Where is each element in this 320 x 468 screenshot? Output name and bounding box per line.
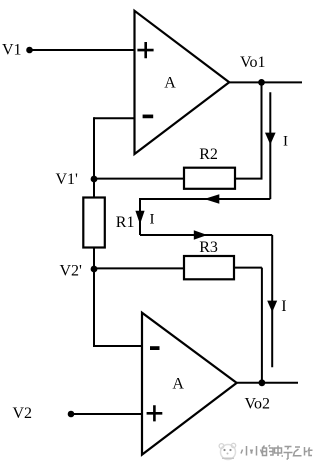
svg-text:Vo2: Vo2 — [245, 395, 271, 412]
current arrow right — [194, 230, 207, 239]
svg-text:I: I — [150, 212, 155, 228]
svg-text:R2: R2 — [199, 146, 218, 163]
wire R3 to Vo2 feedback — [234, 267, 262, 269]
resistor R3 — [184, 256, 234, 279]
current path segment below R2 — [140, 198, 270, 200]
current path segment from Vo1 down — [269, 92, 271, 199]
svg-text:A: A — [164, 75, 176, 92]
node Vo1 — [258, 79, 265, 86]
wire to U2 inverting input — [93, 345, 142, 347]
current arrow I down (bottom right) — [267, 301, 277, 313]
U1 plus input symbol — [137, 42, 153, 58]
svg-text:A: A — [172, 376, 184, 393]
current arrow left — [204, 194, 219, 203]
wire V2 to U2 non-inverting input — [73, 413, 143, 415]
current arrow I down (middle) — [135, 211, 144, 225]
wire U2 output Vo2 — [237, 382, 298, 384]
svg-text:R1: R1 — [116, 214, 135, 231]
resistor R1 — [83, 198, 105, 248]
svg-text:I: I — [283, 133, 288, 149]
terminal V2 — [68, 411, 75, 418]
wire U1 output Vo1 — [229, 81, 302, 83]
wire V2' to R3 — [94, 267, 184, 269]
node Vo2 — [259, 379, 266, 386]
svg-text:Vo1: Vo1 — [240, 54, 266, 71]
wire feedback down to Vo2 — [261, 268, 263, 383]
terminal V1 — [26, 47, 33, 54]
svg-text:V1: V1 — [2, 42, 22, 59]
node V2' — [91, 266, 98, 273]
wire inverting input down to node V1' — [93, 117, 95, 197]
wire R2 to node V1' — [94, 178, 184, 180]
watermark text 小小的电子之路 — [241, 445, 313, 459]
svg-text:I: I — [281, 298, 286, 315]
svg-text:V2: V2 — [13, 405, 33, 422]
wire V2' down — [93, 269, 95, 346]
wire feedback to R2 — [235, 178, 263, 180]
op-amp U1 — [135, 11, 230, 154]
U2 plus input symbol — [147, 405, 163, 421]
current arrow I down (top right) — [265, 133, 276, 145]
svg-text:V1': V1' — [56, 171, 79, 188]
wire R1 to node V2' — [93, 248, 95, 270]
wire V1 to op-amp U1 non-inverting input — [31, 49, 135, 51]
watermark logo icon — [219, 443, 236, 459]
current path segment middle down — [139, 198, 141, 235]
resistor R2 — [184, 168, 235, 189]
op-amp U2 — [142, 313, 237, 455]
current path segment down to Vo2 — [271, 235, 273, 367]
current path segment above R3 — [140, 234, 272, 236]
svg-text:V2': V2' — [60, 263, 83, 280]
U2 minus input symbol — [150, 346, 160, 350]
wire U1 inverting input — [94, 117, 135, 119]
wire Vo1 feedback down — [261, 82, 263, 178]
svg-text:R3: R3 — [199, 239, 218, 256]
node V1' — [91, 176, 98, 183]
U1 minus input symbol — [143, 115, 154, 119]
